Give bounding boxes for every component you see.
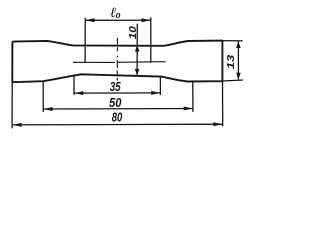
dimension 10: line bbox=[136, 24, 138, 75]
wire: left edge extension (80 dim) bbox=[11, 82, 13, 128]
dimension l0: line bbox=[85, 19, 151, 21]
dimension 50: line bbox=[43, 108, 193, 111]
arrow 10 up bbox=[135, 45, 140, 52]
arrow 13 down bbox=[236, 73, 241, 80]
dimension 80: line bbox=[13, 123, 223, 126]
arrow 80 left bbox=[13, 123, 22, 127]
dimension 50: extension lines bbox=[43, 81, 193, 112]
svg-text:o: o bbox=[116, 10, 121, 21]
arrow l0 right bbox=[142, 18, 151, 22]
arrow 50 left bbox=[44, 107, 53, 111]
arrow 10 down bbox=[135, 69, 140, 76]
svg-text:13: 13 bbox=[225, 55, 237, 70]
specimen outline bbox=[12, 41, 222, 83]
wire: right edge extension (80 dim) bbox=[222, 81, 224, 126]
dimension 13: line bbox=[237, 41, 239, 79]
arrow 80 right bbox=[213, 122, 222, 126]
dimension 35: line bbox=[74, 92, 160, 94]
arrow 13 up bbox=[236, 41, 241, 48]
svg-text:50: 50 bbox=[109, 96, 122, 110]
svg-text:10: 10 bbox=[127, 26, 139, 39]
arrow 35 right bbox=[151, 91, 160, 95]
centerline horizontal bbox=[73, 61, 166, 64]
arrow 35 left bbox=[74, 91, 83, 95]
svg-text:35: 35 bbox=[110, 79, 122, 94]
arrow 50 right bbox=[184, 107, 193, 111]
svg-text:80: 80 bbox=[112, 109, 123, 124]
centerline vertical bbox=[116, 38, 118, 81]
wire: bottom-right extension (13 dim) bbox=[222, 80, 243, 81]
arrow l0 left bbox=[85, 18, 94, 22]
dimension 35: extension lines bbox=[74, 76, 160, 95]
dimension l0: extension lines bbox=[85, 17, 151, 62]
wire: top-right extension (13 dim) bbox=[222, 40, 242, 42]
